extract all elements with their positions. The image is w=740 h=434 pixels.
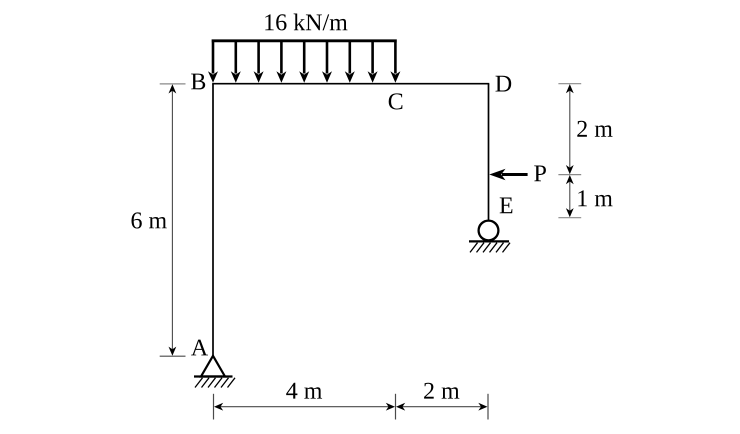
label P xyxy=(534,166,546,182)
pin support triangle at A xyxy=(201,356,225,377)
2 m dimension line xyxy=(569,89,571,170)
label 1 m xyxy=(578,190,612,206)
4 m dimension line xyxy=(219,406,390,408)
2 m bottom dimension line xyxy=(401,406,483,408)
member D-E xyxy=(488,84,490,221)
6 m dimension bottom tick xyxy=(160,355,186,357)
column A-B xyxy=(212,84,214,356)
label A xyxy=(191,340,208,356)
label 4 m xyxy=(286,383,322,399)
label 2 m xyxy=(577,121,612,137)
ground line at A xyxy=(194,375,233,377)
hatching at A xyxy=(195,378,235,388)
label E xyxy=(500,198,513,214)
bottom dimension ticks xyxy=(213,394,215,420)
beam B-D xyxy=(212,83,489,85)
label C xyxy=(389,93,403,109)
right dimension ticks xyxy=(558,83,581,85)
6 m dimension top tick xyxy=(160,83,186,85)
load arrow shafts xyxy=(213,42,395,74)
load arrow heads xyxy=(208,71,400,83)
force P arrow xyxy=(502,173,528,176)
label 16 kN/m xyxy=(265,14,347,31)
label D xyxy=(496,76,512,92)
ground line at E xyxy=(469,240,509,242)
label 6 m xyxy=(132,212,167,228)
6 m dimension line xyxy=(171,90,173,350)
label B xyxy=(191,74,205,90)
1 m dimension line xyxy=(569,180,571,213)
distributed load top line xyxy=(212,39,397,42)
6 m dim arrowheads xyxy=(169,84,177,93)
hatching at E xyxy=(470,243,510,253)
label 2 m (bottom) xyxy=(424,383,459,399)
roller support circle at E xyxy=(479,221,499,241)
